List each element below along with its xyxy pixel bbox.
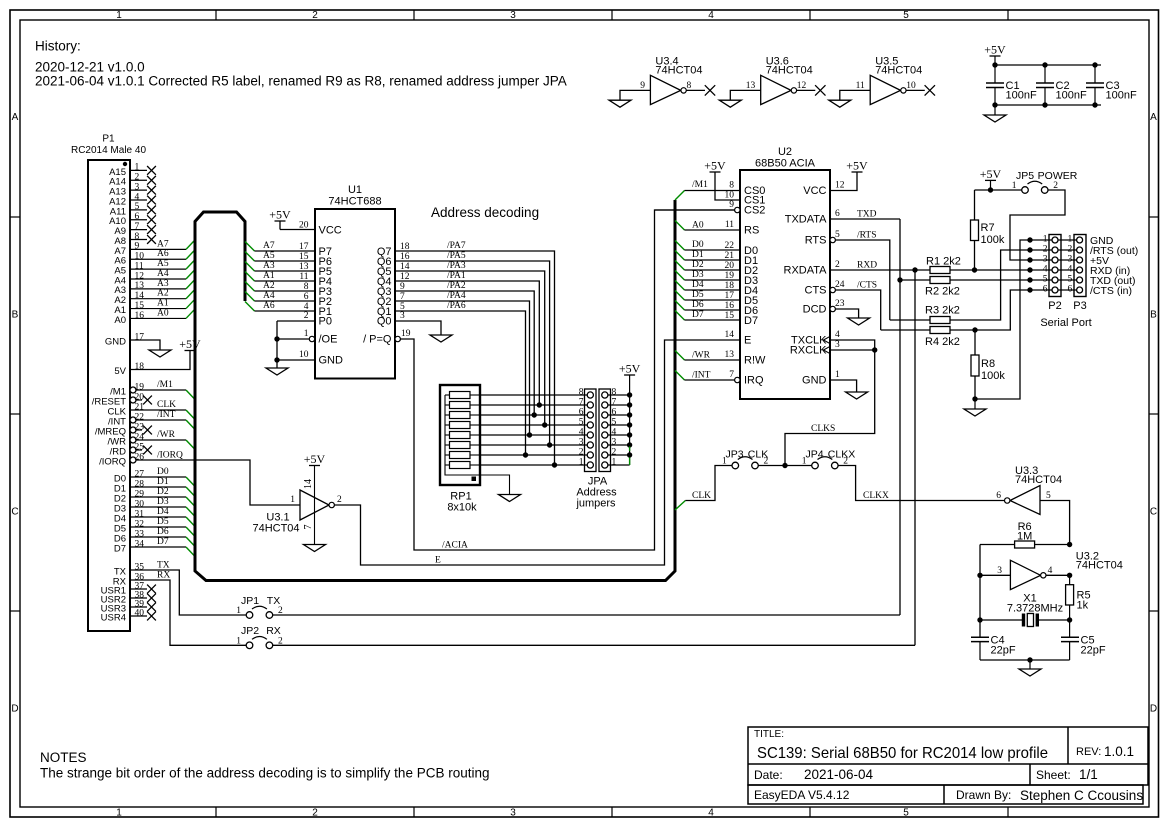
wire (906, 89, 925, 91)
wire /PA5 (395, 261, 550, 445)
svg-text:1: 1 (135, 163, 140, 173)
RP1 common rail (445, 395, 510, 495)
svg-text:P1: P1 (102, 134, 115, 145)
svg-text:B: B (1150, 310, 1157, 321)
svg-text:9: 9 (640, 81, 645, 91)
wire (255, 290, 316, 292)
svg-text:GND: GND (105, 336, 126, 347)
svg-text:7.3728MHz: 7.3728MHz (1007, 603, 1063, 615)
svg-text:Sheet:: Sheet: (1036, 768, 1071, 782)
power +5V U1 (275, 220, 286, 222)
bus entry (186, 309, 195, 319)
U1 pin 19 /P=Q (395, 336, 400, 341)
svg-text:14: 14 (303, 479, 314, 489)
wire (685, 269, 741, 271)
capacitor C4 22pF (971, 636, 989, 638)
svg-text:2: 2 (337, 495, 342, 505)
RP1 resistor element (450, 452, 471, 459)
svg-text:18: 18 (135, 362, 145, 372)
svg-text:RXDATA: RXDATA (784, 265, 828, 277)
ground (829, 100, 851, 107)
bus entry (675, 241, 685, 251)
svg-text:A5: A5 (157, 259, 169, 269)
svg-text:15: 15 (135, 301, 145, 311)
ground (430, 335, 452, 342)
ground (499, 495, 521, 502)
ground (609, 100, 631, 107)
node (527, 432, 532, 437)
svg-text:A0: A0 (114, 315, 126, 326)
svg-text:10: 10 (725, 191, 735, 201)
svg-text:12: 12 (797, 81, 807, 91)
bus entry (186, 517, 195, 527)
svg-text:Address decoding: Address decoding (431, 205, 539, 220)
svg-text:R4 2k2: R4 2k2 (925, 336, 960, 348)
node (1067, 617, 1072, 622)
svg-text:A6: A6 (263, 301, 275, 311)
U2 pin 6 TXDATA (830, 218, 900, 220)
svg-text:7: 7 (579, 398, 584, 408)
U1 pin 1 /OE (309, 336, 314, 341)
resistor network RP1 (440, 385, 480, 485)
svg-text:5V: 5V (114, 366, 126, 377)
svg-text:JP3: JP3 (725, 449, 743, 461)
svg-text:3: 3 (510, 10, 516, 21)
P2/P3 row 5 (1027, 277, 1032, 282)
node (627, 422, 632, 427)
svg-text:The strange bit order of the a: The strange bit order of the address dec… (40, 766, 490, 781)
svg-text:2: 2 (312, 808, 318, 819)
wire (685, 379, 735, 381)
capacitor C1 100nF (994, 65, 996, 83)
svg-text:D2: D2 (692, 260, 704, 270)
wire GND net (975, 240, 1052, 399)
wire TXD vertical (899, 219, 901, 615)
svg-text:74HCT04: 74HCT04 (655, 64, 702, 76)
U2 pin 2 RXDATA (830, 269, 930, 271)
svg-text:17: 17 (725, 291, 735, 301)
bus entry (245, 292, 255, 302)
P1 pin 22 /INT (130, 417, 136, 423)
svg-text:TX: TX (157, 561, 170, 571)
svg-text:History:: History: (35, 39, 81, 54)
svg-text:A5: A5 (263, 251, 275, 261)
jumper JP2 RX (246, 642, 253, 649)
svg-text:8: 8 (612, 388, 617, 398)
svg-text:8x10k: 8x10k (447, 502, 477, 514)
svg-text:5: 5 (612, 418, 617, 428)
wire U3.2 out (1046, 574, 1070, 576)
svg-text:21: 21 (725, 251, 735, 261)
ground U3.1 (304, 545, 326, 552)
U1 pin 2 P0 (277, 320, 315, 322)
bus entry (675, 301, 685, 311)
bus entry (245, 272, 255, 282)
U2 pin 5 RTS (830, 237, 835, 242)
svg-text:A0: A0 (692, 221, 704, 231)
JPA row 1 wire (480, 464, 587, 466)
svg-text:JP4: JP4 (805, 449, 823, 461)
svg-text:5: 5 (1043, 275, 1048, 285)
node (897, 277, 902, 282)
svg-text:+5V: +5V (984, 43, 1006, 57)
wire Q0 to ground (395, 321, 441, 335)
svg-text:A2: A2 (263, 281, 275, 291)
connector P3 (1074, 235, 1086, 297)
svg-text:2021-06-04 v1.0.1 Corrected R5: 2021-06-04 v1.0.1 Corrected R5 label, re… (35, 74, 567, 89)
P2/P3 row 2 (1027, 247, 1032, 252)
ground U2 (846, 392, 868, 399)
power +5V U2 (852, 171, 863, 173)
bus entry (186, 507, 195, 517)
bus entry (186, 440, 195, 450)
svg-text:15: 15 (725, 311, 735, 321)
node (627, 452, 632, 457)
svg-text:D: D (1150, 704, 1157, 715)
JPA row 8 wire (480, 394, 587, 396)
IC U2 68B50 ACIA (740, 170, 830, 399)
svg-text:D5: D5 (157, 517, 169, 527)
svg-text:C: C (1150, 507, 1157, 518)
svg-text:IRQ: IRQ (744, 375, 764, 387)
P1 pin 24 /WR (130, 437, 136, 443)
resistor R2 2k2 (930, 277, 950, 284)
power +5V JP5 (985, 179, 996, 181)
wire P0 /OE GND to ground (276, 321, 278, 368)
svg-text:A: A (12, 112, 19, 123)
svg-text:1: 1 (612, 458, 617, 468)
svg-text:1k: 1k (1077, 600, 1089, 612)
node (627, 412, 632, 417)
svg-text:R!W: R!W (744, 355, 766, 367)
JPA row 5 wire (480, 424, 587, 426)
svg-text:GND: GND (802, 375, 827, 387)
svg-text:22pF: 22pF (991, 645, 1016, 657)
bus entry (675, 281, 685, 291)
svg-text:1: 1 (116, 10, 122, 21)
node (627, 442, 632, 447)
svg-text:17: 17 (135, 332, 145, 342)
wire top rail (995, 64, 1101, 66)
bus entry (675, 191, 685, 201)
node (627, 392, 632, 397)
svg-text:VCC: VCC (803, 185, 826, 197)
svg-text:68B50 ACIA: 68B50 ACIA (755, 158, 816, 170)
inverter U3.2 74HCT04 (1010, 560, 1040, 589)
svg-text:/WR: /WR (157, 430, 176, 440)
svg-text:TXDATA: TXDATA (785, 214, 827, 226)
svg-text:5: 5 (835, 230, 840, 240)
svg-text:4: 4 (612, 428, 617, 438)
bus entry (186, 547, 195, 557)
svg-text:22: 22 (135, 412, 145, 422)
svg-text:/PA4: /PA4 (447, 291, 466, 301)
bus entry (245, 282, 255, 292)
bus entry (675, 221, 685, 231)
wire (890, 319, 930, 321)
jumper JP4 CLKX (812, 462, 819, 469)
RP1 resistor element (450, 412, 471, 419)
wire osc bottom (980, 659, 1070, 661)
svg-text:9: 9 (135, 242, 140, 252)
svg-text:6: 6 (835, 209, 840, 219)
svg-text:1/1: 1/1 (1079, 767, 1098, 782)
wire RX (130, 580, 246, 645)
svg-text:74HCT04: 74HCT04 (766, 64, 813, 76)
svg-text:CLKX: CLKX (828, 449, 855, 461)
svg-text:34: 34 (135, 539, 145, 549)
JPA +5V rail (629, 375, 631, 465)
svg-text:74HCT688: 74HCT688 (328, 196, 381, 208)
svg-text:U1: U1 (348, 184, 362, 196)
wire /PA2 (395, 291, 534, 415)
svg-text:14: 14 (135, 291, 145, 301)
svg-text:P0: P0 (319, 316, 332, 328)
svg-text:5: 5 (1046, 491, 1051, 501)
svg-text:A1: A1 (263, 271, 275, 281)
svg-text:/M1: /M1 (157, 380, 173, 390)
svg-text:4: 4 (135, 192, 140, 202)
svg-text:RS: RS (744, 225, 759, 237)
svg-text:R2 2k2: R2 2k2 (925, 286, 960, 298)
wire /RTS to serial (950, 250, 1052, 320)
svg-text:RXD: RXD (857, 261, 877, 271)
ruler ticks bottom (215, 807, 217, 817)
svg-text:20: 20 (135, 392, 145, 402)
svg-text:Stephen C Ccousins: Stephen C Ccousins (1020, 788, 1143, 803)
wire E net (334, 340, 740, 565)
svg-text:2: 2 (612, 448, 617, 458)
inverter U3.1 74HCT04 (300, 490, 329, 520)
svg-text:RX: RX (157, 571, 170, 581)
svg-text:A1: A1 (157, 299, 169, 309)
svg-text:7: 7 (612, 398, 617, 408)
svg-text:3: 3 (510, 808, 516, 819)
wire osc left rail (979, 545, 981, 638)
ground osc (1029, 660, 1031, 669)
svg-text:+5V: +5V (619, 362, 641, 376)
bus entry (245, 242, 255, 252)
svg-text:RC2014 Male 40: RC2014 Male 40 (71, 145, 146, 156)
svg-text:100nF: 100nF (1056, 90, 1087, 102)
svg-text:JP2: JP2 (241, 625, 259, 637)
bus entry (186, 279, 195, 289)
svg-text:31: 31 (135, 509, 145, 519)
svg-text:D1: D1 (692, 250, 704, 260)
ground (266, 368, 288, 375)
ground R8 (974, 399, 976, 409)
svg-text:19: 19 (135, 382, 145, 392)
node (977, 617, 982, 622)
JPA row 7 wire (480, 404, 587, 406)
svg-text:1: 1 (236, 636, 241, 646)
bus entry (186, 420, 195, 430)
node (627, 402, 632, 407)
bus entry (675, 351, 685, 361)
node (537, 402, 542, 407)
wire TXD row (950, 279, 1052, 281)
title block (748, 727, 1148, 785)
svg-text:/OE: /OE (319, 334, 338, 346)
svg-text:/INT: /INT (692, 371, 711, 381)
node (1027, 657, 1032, 662)
svg-text:11: 11 (299, 272, 308, 282)
resistor R6 1M (980, 544, 1015, 546)
svg-text:3: 3 (612, 438, 617, 448)
svg-text:Drawn By:: Drawn By: (956, 788, 1011, 802)
ruler ticks right (1149, 216, 1159, 218)
wire CLK from bus (675, 501, 685, 511)
svg-text:CLKX: CLKX (863, 491, 889, 501)
bus entry (186, 410, 195, 420)
P2/P3 row 3 (1027, 257, 1032, 262)
svg-text:R7: R7 (981, 222, 995, 234)
node (523, 452, 528, 457)
svg-text:3: 3 (135, 182, 140, 192)
U2 pin 12 VCC (830, 172, 857, 191)
svg-text:6: 6 (612, 408, 617, 418)
svg-text:/CTS (in): /CTS (in) (1090, 285, 1132, 297)
svg-text:1: 1 (290, 495, 295, 505)
svg-text:27: 27 (135, 469, 145, 479)
bus entry (245, 302, 255, 312)
bus entry (186, 299, 195, 309)
P1 pin 23 /MREQ (130, 427, 136, 433)
node (274, 336, 279, 341)
svg-text:17: 17 (299, 242, 309, 252)
resistor R5 1k (1069, 575, 1071, 584)
node (872, 347, 877, 352)
svg-text:/CTS: /CTS (857, 281, 877, 291)
svg-text:CTS: CTS (805, 285, 827, 297)
svg-text:100nF: 100nF (1006, 90, 1037, 102)
wire (255, 260, 316, 262)
svg-text:1: 1 (1043, 235, 1048, 245)
P2/P3 row 1 (1027, 237, 1032, 242)
svg-text:4: 4 (835, 330, 840, 340)
svg-text:+5V: +5V (269, 208, 291, 222)
svg-text:6: 6 (304, 292, 309, 302)
svg-text:/INT: /INT (157, 410, 176, 420)
svg-text:+5V: +5V (704, 159, 726, 173)
svg-text:A3: A3 (157, 279, 169, 289)
bus entry (675, 261, 685, 271)
svg-text:18: 18 (725, 281, 735, 291)
svg-text:B: B (12, 310, 19, 321)
svg-text:3: 3 (1068, 255, 1073, 265)
svg-text:1: 1 (304, 329, 309, 339)
svg-text:EasyEDA V5.4.12: EasyEDA V5.4.12 (754, 788, 850, 802)
svg-text:D6: D6 (157, 527, 169, 537)
svg-text:2: 2 (135, 173, 140, 183)
svg-text:24: 24 (835, 280, 845, 290)
svg-text:/PA1: /PA1 (447, 271, 466, 281)
RP1 resistor element (450, 432, 471, 439)
svg-text:R3 2k2: R3 2k2 (925, 305, 960, 317)
svg-text:2: 2 (304, 311, 309, 321)
svg-text:8: 8 (579, 388, 584, 398)
svg-text:5: 5 (903, 10, 909, 21)
svg-text:+5V: +5V (179, 337, 201, 351)
svg-text:23: 23 (835, 299, 845, 309)
svg-text:D7: D7 (114, 543, 126, 554)
svg-text:4: 4 (579, 428, 584, 438)
wire (685, 359, 741, 361)
ruler ticks left (10, 216, 20, 218)
svg-text:P2: P2 (1048, 300, 1061, 312)
wire U3.2 in (980, 574, 1010, 576)
svg-text:2: 2 (312, 10, 318, 21)
svg-text:/PA2: /PA2 (447, 281, 466, 291)
svg-text:6: 6 (579, 408, 584, 418)
svg-text:74HCT04: 74HCT04 (1076, 560, 1123, 572)
RP1 resistor element (450, 462, 471, 469)
svg-text:28: 28 (135, 479, 145, 489)
svg-text:2020-12-21 v1.0.0: 2020-12-21 v1.0.0 (35, 60, 145, 75)
power +5V C1C3 (990, 55, 1001, 57)
svg-text:29: 29 (135, 489, 145, 499)
svg-text:6: 6 (996, 491, 1001, 501)
wire (255, 300, 316, 302)
svg-text:4: 4 (1048, 566, 1053, 576)
svg-text:20: 20 (725, 261, 735, 271)
RP1 resistor element (450, 402, 471, 409)
svg-text:A6: A6 (157, 249, 169, 259)
resistor R8 100k (974, 330, 976, 355)
wire /PA6 (395, 311, 526, 455)
node (912, 267, 917, 272)
svg-text:3: 3 (1043, 255, 1048, 265)
svg-text:11: 11 (856, 81, 865, 91)
svg-text:C: C (11, 507, 18, 518)
wire /PA3 (395, 271, 545, 425)
node (552, 462, 557, 467)
svg-text:D: D (11, 704, 18, 715)
RP1 resistor element (450, 392, 471, 399)
svg-text:D2: D2 (157, 487, 169, 497)
svg-text:1: 1 (835, 370, 840, 380)
svg-text:GND: GND (319, 355, 344, 367)
svg-text:12: 12 (135, 271, 145, 281)
svg-text:8: 8 (729, 181, 734, 191)
bus entry (186, 240, 195, 250)
svg-text:12: 12 (835, 181, 845, 191)
P1 pin 20 /RESET (130, 397, 136, 403)
wire (255, 250, 316, 252)
bus entry (186, 537, 195, 547)
wire (685, 299, 741, 301)
svg-text:32: 32 (135, 519, 145, 529)
svg-text:23: 23 (135, 422, 145, 432)
bus entry (245, 252, 255, 262)
svg-text:CLK: CLK (692, 491, 711, 501)
svg-text:15: 15 (299, 252, 309, 262)
svg-text:Serial Port: Serial Port (1040, 317, 1091, 329)
svg-text:22pF: 22pF (1081, 645, 1106, 657)
svg-text:33: 33 (135, 529, 145, 539)
no connect (925, 85, 935, 95)
svg-text:13: 13 (299, 262, 309, 272)
wire /PA4 (395, 301, 530, 435)
wire (686, 89, 705, 91)
svg-text:8: 8 (304, 282, 309, 292)
svg-text:5: 5 (903, 808, 909, 819)
U1 pin 10 GND (277, 359, 315, 361)
svg-text:8: 8 (687, 81, 692, 91)
wire 5V pin18 (130, 351, 190, 370)
wire (950, 329, 975, 331)
ruler ticks top (215, 10, 217, 20)
